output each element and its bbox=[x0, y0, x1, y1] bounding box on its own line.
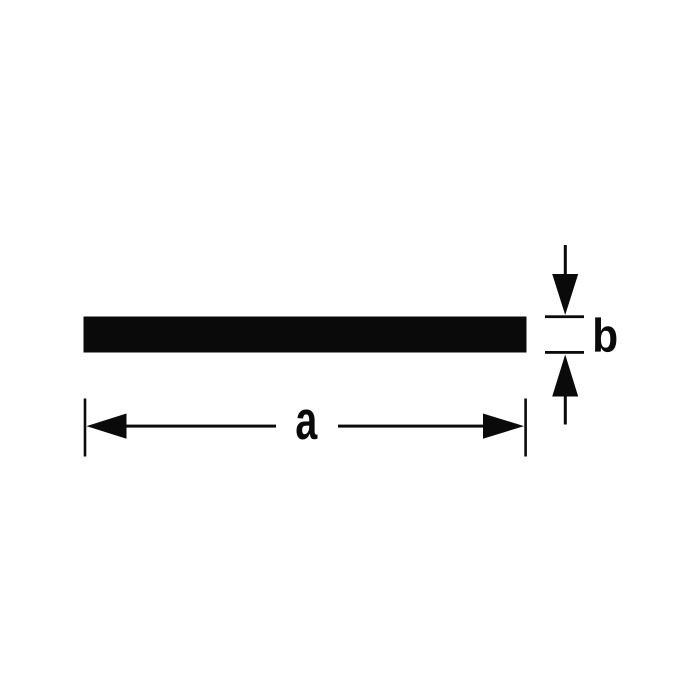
flat bar profile (black rectangle) bbox=[84, 317, 527, 353]
label b bbox=[595, 317, 616, 352]
dimension b: upper stem bbox=[564, 245, 567, 276]
dimension a: right extension tick bbox=[524, 399, 527, 457]
dimension b: lower arrowhead (pointing up) bbox=[552, 355, 578, 397]
label a bbox=[296, 409, 317, 439]
dimension a: left extension tick bbox=[84, 399, 87, 457]
dimension b: lower tick line bbox=[545, 351, 584, 354]
dimension b: upper tick line bbox=[545, 315, 584, 318]
dimension a: right line segment bbox=[338, 425, 483, 428]
dimension b: upper arrowhead (pointing down) bbox=[552, 274, 578, 315]
dimension a: right arrowhead (pointing right) bbox=[483, 414, 524, 439]
dimension b: lower stem bbox=[564, 397, 567, 425]
dimension a: left arrowhead (pointing left) bbox=[87, 414, 127, 439]
dimension a: left line segment bbox=[127, 425, 277, 428]
